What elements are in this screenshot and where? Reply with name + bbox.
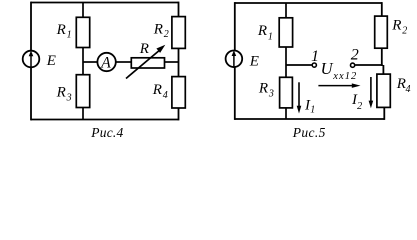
label I1 (Fig.5) <box>304 97 315 115</box>
resistor R4 (Fig.4) <box>172 77 185 108</box>
source E current arrow (Fig.4) <box>29 51 34 68</box>
svg-text:2: 2 <box>402 26 407 37</box>
wire: right rail top lead to R2 (Fig.4) <box>178 2 180 17</box>
current arrow I1 (Fig.5) <box>297 82 302 113</box>
rheostat R adjustment arrow (Fig.4) <box>126 45 165 79</box>
wire: top horizontal (Fig.5) <box>235 2 382 4</box>
svg-text:3: 3 <box>268 88 274 99</box>
label I2 (Fig.5) <box>351 92 362 112</box>
resistor R2 (Fig.5) <box>375 16 388 48</box>
wire: bridge branch from node to ammeter (Fig.4) <box>83 61 98 63</box>
wire: rheostat to right rail (Fig.4) <box>165 61 179 63</box>
svg-text:1: 1 <box>311 48 319 65</box>
svg-text:4: 4 <box>163 90 168 101</box>
wire: bottom horizontal (Fig.4) <box>31 119 179 121</box>
svg-text:R: R <box>152 82 162 98</box>
wire: left vertical upper lead to source E (Fig.4) <box>30 2 32 51</box>
svg-text:A: A <box>100 54 111 71</box>
svg-text:2: 2 <box>357 101 362 112</box>
svg-text:1: 1 <box>310 105 315 116</box>
voltage direction arrow for Uxx12 (Fig.5) <box>318 83 360 88</box>
wire: left branch bottom lead from R3 (Fig.5) <box>285 108 287 119</box>
svg-text:E: E <box>249 54 259 70</box>
svg-text:R: R <box>139 41 149 57</box>
wire: middle branch bottom lead from R3 (Fig.4) <box>82 108 84 120</box>
svg-text:3: 3 <box>66 92 72 103</box>
svg-text:R: R <box>396 76 406 92</box>
wire: left vertical lower lead from source E (Fig.4) <box>30 68 32 121</box>
svg-text:4: 4 <box>406 84 411 95</box>
rheostat R body (Fig.4) <box>131 58 164 68</box>
svg-text:1: 1 <box>67 30 72 41</box>
wire: bottom horizontal (Fig.5) <box>235 118 385 120</box>
svg-text:R: R <box>258 81 268 97</box>
wire: top horizontal (Fig.4) <box>31 2 179 4</box>
source E circle (Fig.5) <box>226 51 243 68</box>
svg-text:Рис.5: Рис.5 <box>292 125 326 140</box>
label R2 (Fig.5) <box>391 17 407 36</box>
svg-text:R: R <box>391 17 401 33</box>
label U_xx12 (Fig.5) <box>321 59 358 82</box>
wire: ammeter to rheostat (Fig.4) <box>116 61 132 63</box>
wire: right rail bottom lead from R4 (Fig.4) <box>178 108 180 120</box>
svg-text:R: R <box>56 22 66 38</box>
label R4 (Fig.4) <box>152 82 168 101</box>
wire: left branch top lead to R1 (Fig.5) <box>285 3 287 18</box>
svg-text:R: R <box>56 85 66 101</box>
label R4 (Fig.5) <box>396 76 411 95</box>
resistor R3 (Fig.4) <box>76 75 89 108</box>
wire: right rail bottom lead from R4 (Fig.5) <box>383 107 385 120</box>
resistor R2 (Fig.4) <box>172 17 185 49</box>
resistor R3 (Fig.5) <box>280 77 293 108</box>
svg-text:1: 1 <box>268 31 273 42</box>
svg-text:R: R <box>153 21 163 37</box>
svg-text:Рис.4: Рис.4 <box>90 125 123 140</box>
wire: right rail lead to R4 top (Fig.5) <box>382 65 384 74</box>
wire: left vertical lower lead from source E (Fig.5) <box>234 67 236 120</box>
wire: right rail top lead to R2 (Fig.5) <box>381 2 383 16</box>
wire: middle branch between R1 and R3 (Fig.4) <box>82 48 84 76</box>
svg-text:2: 2 <box>351 47 359 64</box>
svg-text:E: E <box>46 53 56 69</box>
wire: right rail between R2 and R4 (Fig.4) <box>178 48 180 77</box>
label R1 (Fig.5) <box>257 23 273 42</box>
resistor R1 (Fig.4) <box>76 17 89 47</box>
wire: left branch between R1 and R3 (Fig.5) <box>285 47 287 78</box>
label R2 (Fig.4) <box>153 21 169 40</box>
resistor R4 (Fig.5) <box>377 74 390 107</box>
label R3 (Fig.5) <box>258 81 274 100</box>
current arrow I2 (Fig.5) <box>369 77 374 108</box>
source E circle (Fig.4) <box>23 51 40 68</box>
wire: stub from left branch to terminal 1 (Fig.5) <box>286 64 312 66</box>
wire: stub from terminal 2 to right rail (Fig.5) <box>355 64 383 66</box>
svg-text:U: U <box>321 59 334 78</box>
svg-text:хх12: хх12 <box>332 71 357 82</box>
ammeter A (Fig.4) <box>97 53 115 72</box>
label R3 (Fig.4) <box>56 85 72 104</box>
terminal node 1 (Fig.5) <box>312 63 316 67</box>
terminal node 2 (Fig.5) <box>351 63 355 67</box>
wire: left vertical upper lead to source E (Fig.5) <box>234 2 236 50</box>
svg-text:R: R <box>257 23 267 39</box>
resistor R1 (Fig.5) <box>279 18 292 47</box>
source E current arrow (Fig.5) <box>232 50 237 67</box>
wire: right rail between R2 and stub node (Fig.5) <box>381 48 383 66</box>
label R1 (Fig.4) <box>56 22 72 41</box>
wire: middle branch top lead to R1 (Fig.4) <box>82 3 84 18</box>
svg-text:2: 2 <box>164 29 169 40</box>
